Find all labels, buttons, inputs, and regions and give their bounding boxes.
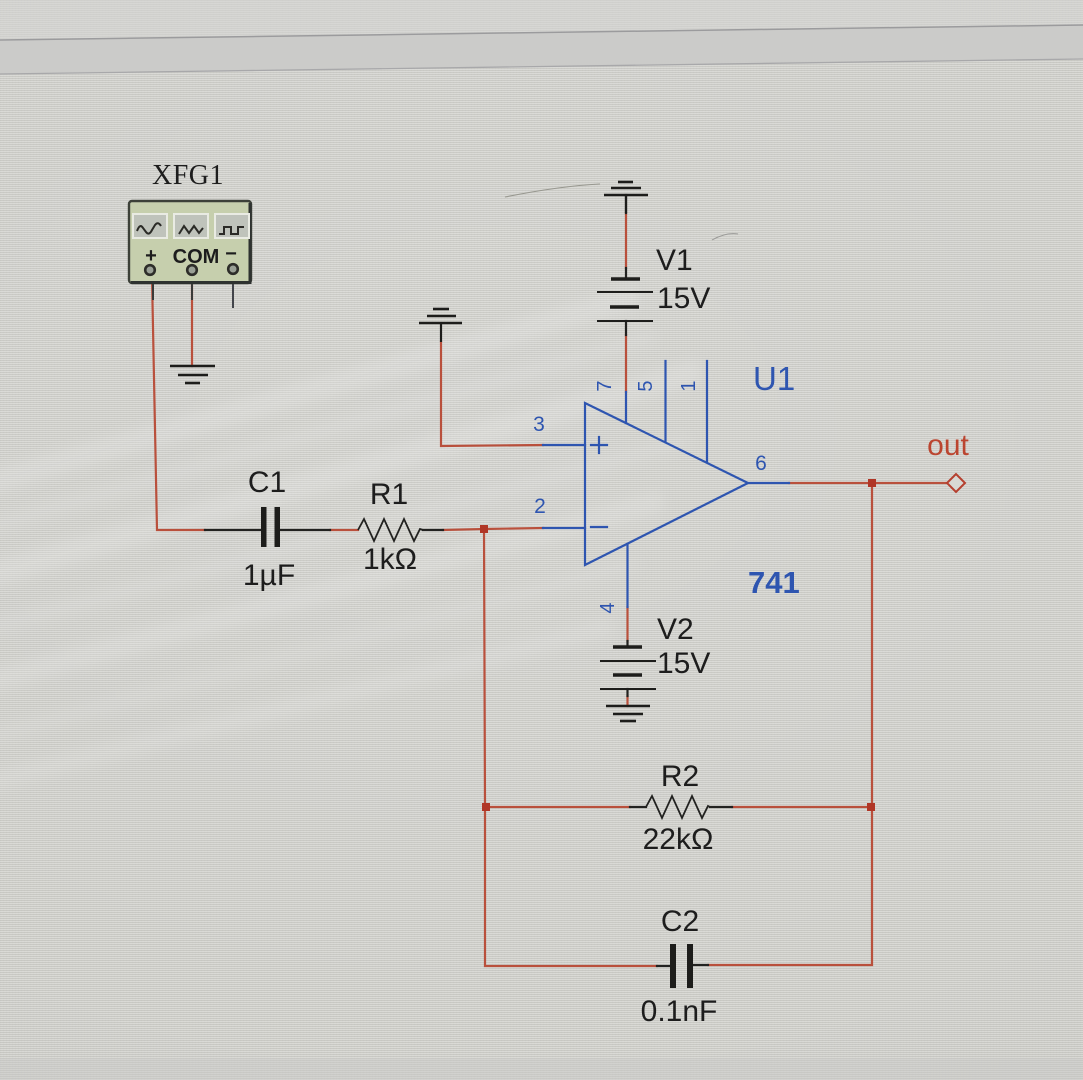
svg-text:C1: C1	[248, 466, 286, 499]
svg-text:U1: U1	[753, 360, 795, 397]
svg-text:+: +	[145, 245, 157, 267]
svg-text:741: 741	[748, 565, 800, 600]
svg-text:4: 4	[597, 602, 619, 613]
svg-text:1: 1	[678, 380, 700, 391]
svg-text:−: −	[225, 243, 237, 265]
svg-text:R1: R1	[370, 478, 408, 511]
svg-text:2: 2	[534, 495, 546, 518]
svg-text:3: 3	[533, 413, 545, 436]
svg-text:V2: V2	[657, 613, 694, 646]
svg-text:6: 6	[755, 452, 767, 475]
svg-text:out: out	[927, 429, 969, 462]
svg-text:1µF: 1µF	[243, 559, 295, 592]
svg-text:5: 5	[635, 380, 657, 391]
svg-text:XFG1: XFG1	[152, 160, 224, 191]
svg-text:COM: COM	[173, 246, 220, 268]
svg-text:22kΩ: 22kΩ	[643, 823, 714, 856]
svg-text:15V: 15V	[657, 647, 710, 680]
svg-text:R2: R2	[661, 760, 699, 793]
svg-text:1kΩ: 1kΩ	[363, 543, 417, 576]
svg-text:0.1nF: 0.1nF	[641, 995, 718, 1028]
svg-text:7: 7	[594, 380, 616, 391]
svg-text:C2: C2	[661, 905, 699, 938]
svg-text:15V: 15V	[657, 282, 710, 315]
svg-text:V1: V1	[656, 244, 693, 277]
